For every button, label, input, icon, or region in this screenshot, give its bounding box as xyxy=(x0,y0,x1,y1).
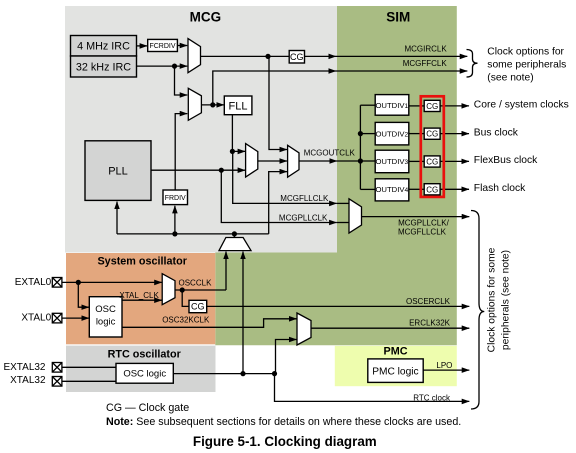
svg-text:PMC logic: PMC logic xyxy=(372,366,418,377)
svg-text:EXTAL32: EXTAL32 xyxy=(3,362,45,373)
svg-text:RTC clock: RTC clock xyxy=(413,393,451,402)
svg-text:ERCLK32K: ERCLK32K xyxy=(409,318,451,327)
svg-text:some peripherals: some peripherals xyxy=(487,59,566,70)
svg-text:OSCERCLK: OSCERCLK xyxy=(406,297,451,306)
svg-text:Clock options for some: Clock options for some xyxy=(487,247,498,352)
svg-text:Bus clock: Bus clock xyxy=(474,127,519,138)
svg-text:peripherals (see note): peripherals (see note) xyxy=(501,250,512,350)
svg-text:MCGFLLCLK: MCGFLLCLK xyxy=(398,228,447,237)
svg-text:MCGFFCLK: MCGFFCLK xyxy=(403,59,448,68)
svg-text:FCRDIV: FCRDIV xyxy=(149,43,175,50)
svg-text:System oscillator: System oscillator xyxy=(97,255,187,267)
svg-text:OUTDIV1: OUTDIV1 xyxy=(375,101,408,110)
svg-text:FRDIV: FRDIV xyxy=(165,195,186,202)
svg-text:PMC: PMC xyxy=(384,345,408,357)
svg-text:MCGPLLCLK/: MCGPLLCLK/ xyxy=(398,219,449,228)
svg-text:EXTAL0: EXTAL0 xyxy=(15,277,52,288)
svg-text:MCGPLLCLK: MCGPLLCLK xyxy=(279,213,328,222)
svg-text:FLL: FLL xyxy=(229,100,248,112)
svg-text:MCGIRCLK: MCGIRCLK xyxy=(404,45,447,54)
svg-text:OSC32KCLK: OSC32KCLK xyxy=(162,315,210,324)
svg-text:(see note): (see note) xyxy=(487,72,533,83)
svg-text:Note: See subsequent sections: Note: See subsequent sections for detail… xyxy=(106,416,461,428)
svg-text:PLL: PLL xyxy=(108,166,128,178)
svg-text:MCG: MCG xyxy=(190,9,222,24)
svg-text:XTAL32: XTAL32 xyxy=(10,375,46,386)
svg-text:OUTDIV2: OUTDIV2 xyxy=(375,129,408,138)
svg-text:CG: CG xyxy=(290,52,304,62)
svg-text:logic: logic xyxy=(96,316,116,327)
svg-text:FlexBus clock: FlexBus clock xyxy=(474,155,538,166)
svg-text:XTAL_CLK: XTAL_CLK xyxy=(119,291,159,300)
svg-text:CG: CG xyxy=(426,185,438,194)
svg-text:CG: CG xyxy=(426,158,438,167)
svg-text:LPO: LPO xyxy=(436,361,452,370)
svg-text:Core / system clocks: Core / system clocks xyxy=(474,100,569,111)
svg-text:CG: CG xyxy=(426,130,438,139)
svg-text:MCGOUTCLK: MCGOUTCLK xyxy=(304,149,356,158)
svg-text:Figure 5-1. Clocking diagram: Figure 5-1. Clocking diagram xyxy=(193,434,377,449)
svg-text:CG: CG xyxy=(426,102,438,111)
svg-text:OUTDIV3: OUTDIV3 xyxy=(375,157,408,166)
svg-text:OUTDIV4: OUTDIV4 xyxy=(375,185,408,194)
svg-text:Flash clock: Flash clock xyxy=(474,183,526,194)
svg-text:CG: CG xyxy=(191,302,205,312)
svg-text:MCGFLLCLK: MCGFLLCLK xyxy=(280,194,329,203)
svg-text:CG — Clock gate: CG — Clock gate xyxy=(106,402,189,414)
svg-text:XTAL0: XTAL0 xyxy=(21,313,51,324)
svg-text:RTC oscillator: RTC oscillator xyxy=(108,348,182,360)
svg-text:Clock options for: Clock options for xyxy=(487,46,564,57)
svg-text:OSC: OSC xyxy=(95,304,116,315)
svg-text:SIM: SIM xyxy=(386,9,410,24)
svg-text:4 MHz IRC: 4 MHz IRC xyxy=(77,41,130,53)
svg-text:OSCCLK: OSCCLK xyxy=(179,278,213,287)
svg-text:32 kHz IRC: 32 kHz IRC xyxy=(76,61,131,73)
svg-text:OSC logic: OSC logic xyxy=(123,369,166,380)
